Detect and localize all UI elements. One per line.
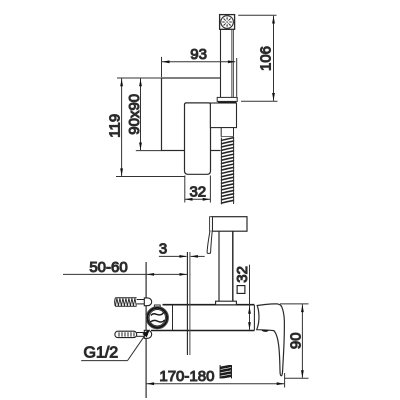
slider rail bar	[185, 103, 211, 174]
spray nozzle (side)	[207, 231, 212, 253]
svg-text:90: 90	[288, 332, 305, 349]
extension line bottom of rail (119)	[116, 176, 185, 178]
handle bars (side view)	[218, 231, 220, 301]
svg-text:93: 93	[190, 46, 207, 63]
dim 32 arrows	[185, 198, 193, 201]
holder dark top band	[218, 101, 236, 103]
dim 3 left segment + arrow	[159, 255, 187, 257]
dim 170-180 line	[146, 383, 284, 385]
dim square32 line	[249, 265, 251, 330]
dim 170-180 right ext	[284, 373, 286, 388]
side hose stub	[218, 365, 234, 378]
dim 90 line	[301, 304, 303, 377]
svg-text:G1/2: G1/2	[84, 345, 119, 362]
holder block	[210, 103, 236, 128]
extension line left of plate bottom (90x90)	[136, 150, 162, 152]
top wall plug (threaded anchor)	[115, 298, 137, 307]
G1/2 leader line	[128, 334, 147, 361]
dim 93 arrows	[162, 60, 170, 63]
hand shower side view: head block	[212, 217, 247, 232]
dim 106 extension bottom	[241, 100, 278, 102]
hand shower head square front view	[220, 15, 235, 30]
cartridge mounting tab	[154, 305, 160, 308]
dim 93 extension right (down along handle)	[236, 58, 238, 97]
shower hose (coiled spring) front view	[220, 137, 237, 205]
lever indicator notch	[261, 330, 269, 332]
svg-text:119: 119	[107, 114, 124, 138]
top screw head	[144, 298, 151, 306]
lever handle	[257, 304, 285, 376]
wall line	[145, 262, 147, 398]
svg-text:32: 32	[189, 184, 206, 201]
valve body (in-wall)	[151, 305, 254, 331]
dim 90 arrows	[301, 305, 304, 313]
escutcheon plate (side view, double line)	[186, 252, 188, 355]
dim 3 right segment + arrow	[191, 255, 205, 257]
svg-text:32: 32	[234, 266, 251, 283]
svg-text:106: 106	[257, 46, 274, 71]
dim 32 line	[185, 198, 211, 200]
extension line left of plate top (119/90x90 datum)	[117, 77, 162, 79]
dim 90x90 arrows	[139, 79, 142, 87]
dim 119 line	[121, 79, 123, 177]
svg-text:90x90: 90x90	[126, 94, 143, 135]
head face plate	[210, 217, 213, 232]
dim 93 extension left (up from plate corner)	[161, 57, 163, 77]
dim 119 arrows	[120, 79, 123, 87]
dim 50-60 arrows	[147, 273, 155, 276]
dim 32 ext lines (below rail)	[184, 176, 186, 203]
dim 90 ext bottom	[285, 377, 309, 379]
holder collar	[217, 97, 237, 101]
dim square32 square symbol	[237, 286, 245, 294]
hose connector below holder	[221, 128, 233, 137]
bottom screw shaft	[137, 332, 145, 334]
svg-text:170-180: 170-180	[159, 368, 214, 385]
hand shower handle front view	[221, 29, 234, 97]
cartridge seal squiggles	[151, 313, 165, 316]
dim 106 arrows	[272, 16, 275, 24]
G1/2 underline	[81, 360, 127, 362]
hose coil side edges	[220, 138, 222, 205]
handle base flange	[216, 301, 237, 305]
cartridge circle assembly	[146, 307, 168, 329]
dim 50-60 line	[63, 273, 187, 275]
spray nozzle dots and spokes	[223, 18, 232, 27]
dim 106 extension top	[238, 14, 276, 16]
svg-text:50-60: 50-60	[89, 259, 127, 276]
dim 106 line	[273, 16, 275, 101]
dim 90x90 line	[140, 79, 142, 151]
dim 170-180 arrows	[147, 382, 155, 385]
dim 90 ext top	[280, 303, 309, 305]
body right end	[253, 305, 255, 330]
bottom wall plug (ribbed anchor)	[115, 331, 137, 337]
bottom screw head	[144, 330, 151, 338]
dim square32 arrows	[248, 306, 251, 314]
wall plate 90x90 front view	[162, 78, 233, 151]
svg-text:3: 3	[159, 241, 167, 258]
spray face circle	[221, 16, 234, 29]
G1/2 leader arrowhead	[142, 329, 150, 337]
dim 93 line	[162, 61, 236, 63]
top screw shaft	[137, 299, 145, 301]
